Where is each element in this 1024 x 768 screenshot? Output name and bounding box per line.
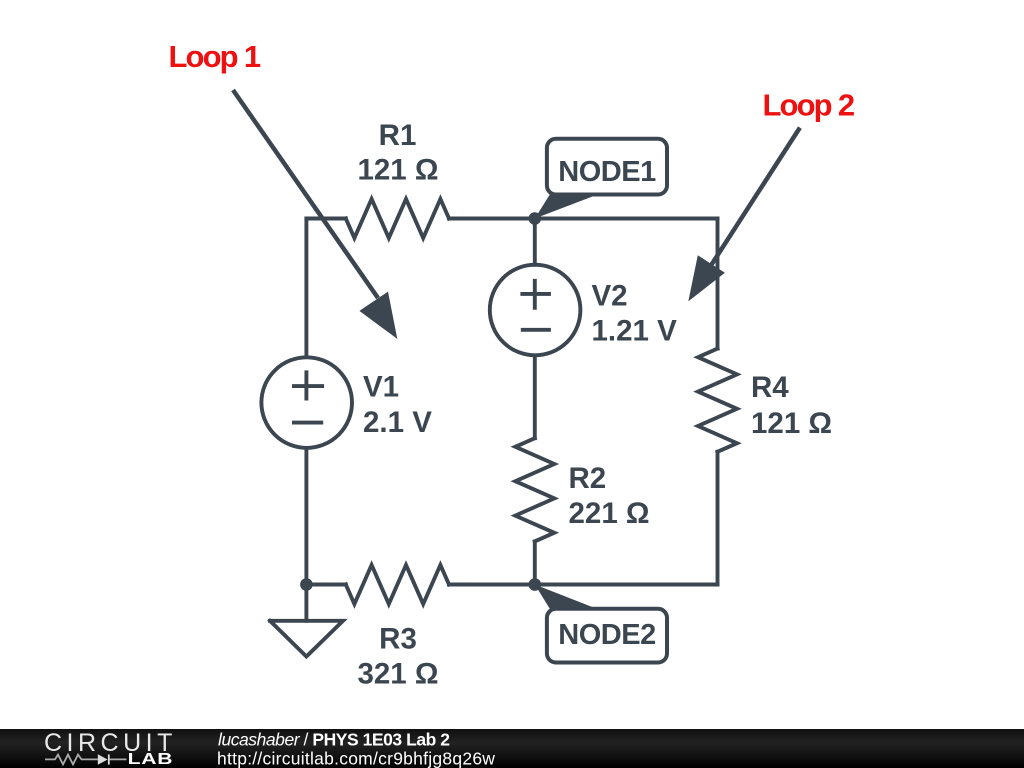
node NODE2 callout box	[547, 609, 667, 663]
svg-text:121 Ω: 121 Ω	[751, 407, 832, 440]
V2 minus sign	[521, 328, 551, 332]
svg-text:lucashaber / PHYS 1E03 Lab 2: lucashaber / PHYS 1E03 Lab 2	[218, 729, 450, 749]
annotation Loop 2 arrowhead	[688, 255, 725, 301]
resistor R2	[515, 438, 554, 541]
V1 minus sign	[292, 421, 323, 425]
svg-text:R4: R4	[751, 371, 789, 404]
voltage source V1	[261, 357, 352, 448]
svg-text:321 Ω: 321 Ω	[357, 657, 438, 690]
wire bottom right segment	[535, 583, 718, 587]
footer bar	[0, 729, 1024, 768]
wire left vertical bottom	[304, 448, 308, 584]
svg-text:LAB: LAB	[128, 750, 174, 768]
wire left vertical top	[304, 219, 308, 358]
NODE1 callout tail	[535, 195, 598, 219]
svg-text:http://circuitlab.com/cr9bhfjg: http://circuitlab.com/cr9bhfjg8q26w	[217, 748, 495, 768]
svg-text:121 Ω: 121 Ω	[357, 154, 438, 187]
svg-text:Loop 2: Loop 2	[763, 88, 854, 123]
V2 plus sign	[520, 279, 551, 310]
svg-text:R2: R2	[569, 462, 607, 495]
svg-text:221 Ω: 221 Ω	[569, 497, 650, 530]
ground	[270, 585, 343, 657]
svg-text:R3: R3	[379, 623, 417, 656]
footer logo resistor-diode glyph	[45, 754, 127, 765]
svg-text:1.21 V: 1.21 V	[592, 315, 678, 348]
wire middle below V2	[533, 356, 537, 439]
resistor R4	[698, 349, 737, 452]
annotation Loop 1 arrow shaft	[233, 90, 378, 298]
svg-text:V2: V2	[592, 280, 628, 313]
wire middle vertical top	[533, 219, 537, 265]
wire top right of R1	[449, 217, 718, 221]
junction dot at ground	[300, 578, 313, 591]
svg-text:V1: V1	[363, 371, 399, 404]
wire between R3 and NODE2	[449, 583, 535, 587]
annotation Loop 1 arrowhead	[359, 292, 397, 339]
wire right vertical top	[716, 219, 720, 349]
wire right vertical bottom	[716, 452, 720, 585]
svg-text:NODE1: NODE1	[558, 156, 656, 188]
annotation Loop 2 arrow shaft	[708, 128, 800, 270]
svg-text:Loop 1: Loop 1	[169, 39, 261, 74]
NODE2 callout tail	[535, 585, 597, 609]
resistor R1	[346, 199, 449, 238]
wire bottom left stub	[306, 583, 345, 587]
svg-text:R1: R1	[379, 119, 417, 152]
voltage source V2	[490, 265, 581, 356]
wire top (node1 net)	[306, 217, 345, 221]
node NODE1 callout box	[547, 139, 667, 195]
junction dot NODE2	[529, 578, 542, 591]
wire middle above NODE2	[533, 541, 537, 584]
junction dot NODE1	[529, 212, 542, 225]
svg-text:2.1 V: 2.1 V	[363, 406, 432, 439]
V1 plus sign	[292, 370, 324, 400]
resistor R3	[346, 565, 449, 604]
svg-text:NODE2: NODE2	[558, 619, 655, 651]
